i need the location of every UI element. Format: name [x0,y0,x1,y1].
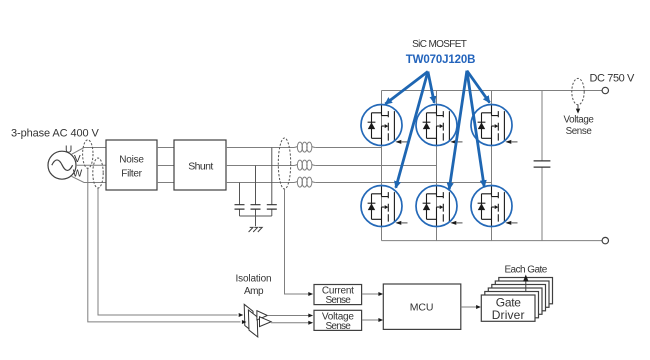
transistor Q3 high-side W [471,105,518,146]
DC plus rail [382,90,603,92]
svg-text:Filter: Filter [121,169,142,180]
svg-text:Voltage: Voltage [564,115,595,126]
filter capacitor C1 tap from W [235,183,245,217]
svg-text:MCU: MCU [410,302,434,314]
op-amp U2 triangle [260,317,272,327]
voltage sense loop on DC rail [572,78,584,104]
input arrow to U1 [239,313,244,317]
DC minus rail [382,240,603,242]
label Voltage Sense DC [564,115,595,138]
svg-text:Sense: Sense [325,321,351,332]
label TW070J120B [406,54,475,66]
phase label U [65,144,72,155]
callout arrow to Q5 [449,71,467,190]
capacitor common bus [240,216,272,226]
svg-text:Noise: Noise [119,155,144,166]
transistor Q5 low-side V [416,186,463,227]
svg-text:Each Gate: Each Gate [504,265,547,276]
gate driver stack box 6 [499,278,553,304]
label SiC MOSFET [412,39,467,50]
inductor L2 [294,160,315,170]
wire phase W shunt to bridge [226,182,492,184]
svg-text:Isolation: Isolation [236,274,272,285]
label Each Gate [504,265,547,276]
DC minus terminal [602,237,608,243]
gate driver stack box 2 [485,292,539,318]
label DC 750 V [590,73,636,85]
inductor L1 [294,142,315,152]
isolation amp U2 body [248,310,257,337]
callout arrow to Q6 [467,71,484,187]
callout arrow to Q1 [385,72,428,105]
gate driver block front [481,295,535,322]
callout arrow to Q2 [428,72,434,103]
filter capacitor C3 tap from U [267,148,277,217]
wire phase U shunt to bridge [226,147,382,149]
callout arrow to Q4 [396,72,428,188]
gate driver stack box 3 [488,288,542,314]
current sense block [314,285,362,307]
wire iso amp 1 to voltage sense block [267,314,313,318]
voltage sense block [314,310,362,332]
input arrow to U2 [242,320,247,324]
DC plus terminal [602,87,608,93]
svg-text:U: U [65,144,72,155]
each gate up arrow [523,275,529,293]
inductor L3 [294,177,315,187]
ground [249,227,263,232]
sense wire from V loop to isolation amp [88,168,241,322]
svg-text:V: V [74,154,81,165]
wire phase V source to noise filter [76,164,106,166]
svg-text:Amp: Amp [244,286,264,297]
sense wire loop to current sense block [285,189,314,296]
svg-text:3-phase AC 400 V: 3-phase AC 400 V [11,128,99,140]
svg-text:SiC MOSFET: SiC MOSFET [412,39,467,50]
DC link capacitor [534,91,551,241]
label Isolation Amp [236,274,272,298]
svg-text:DC 750 V: DC 750 V [590,73,636,85]
label 3-phase AC 400 V [11,128,99,140]
sense wire from W loop to isolation amp [98,188,238,315]
svg-text:Sense: Sense [325,295,351,306]
callout arrow to Q3 [467,71,490,103]
wire voltage sense to MCU [362,318,383,322]
phase label W [73,169,83,180]
wire phase U source to noise filter [72,148,107,155]
transistor Q2 high-side V [416,105,463,146]
MCU block [383,284,461,329]
AC source G1 [48,151,76,179]
wire MCU to gate driver [461,305,481,309]
filter capacitor C2 tap from V [251,166,261,217]
noise filter block [106,140,157,190]
wire current sense to MCU [362,292,383,296]
bridge leg column 2 [436,91,438,241]
transistor Q1 high-side U [361,105,408,146]
wire phase W source to noise filter [72,176,107,182]
transistor Q4 low-side U [361,186,408,227]
current sense loop on V line [83,140,93,168]
isolation amp U1 body [244,304,253,332]
shunt block [174,140,226,190]
current sense loop before inductors [278,138,290,189]
wire phase V shunt to bridge [226,165,437,167]
wire iso amp 2 to voltage sense block [271,321,313,325]
svg-text:TW070J120B: TW070J120B [406,54,475,66]
bridge leg column 1 [381,91,383,241]
transistor Q6 low-side W [471,186,518,227]
phase label V [74,154,81,165]
op-amp U1 triangle [257,311,268,320]
voltage sense pointer arrow [576,105,580,114]
svg-text:Sense: Sense [566,126,593,137]
bridge leg column 3 [491,91,493,241]
svg-text:Driver: Driver [492,308,525,322]
gate driver stack box 4 [492,285,546,311]
wires noise filter to shunt [157,148,174,183]
current sense loop on W line [93,158,103,188]
svg-text:Shunt: Shunt [188,161,213,173]
gate driver stack box 5 [495,281,549,307]
